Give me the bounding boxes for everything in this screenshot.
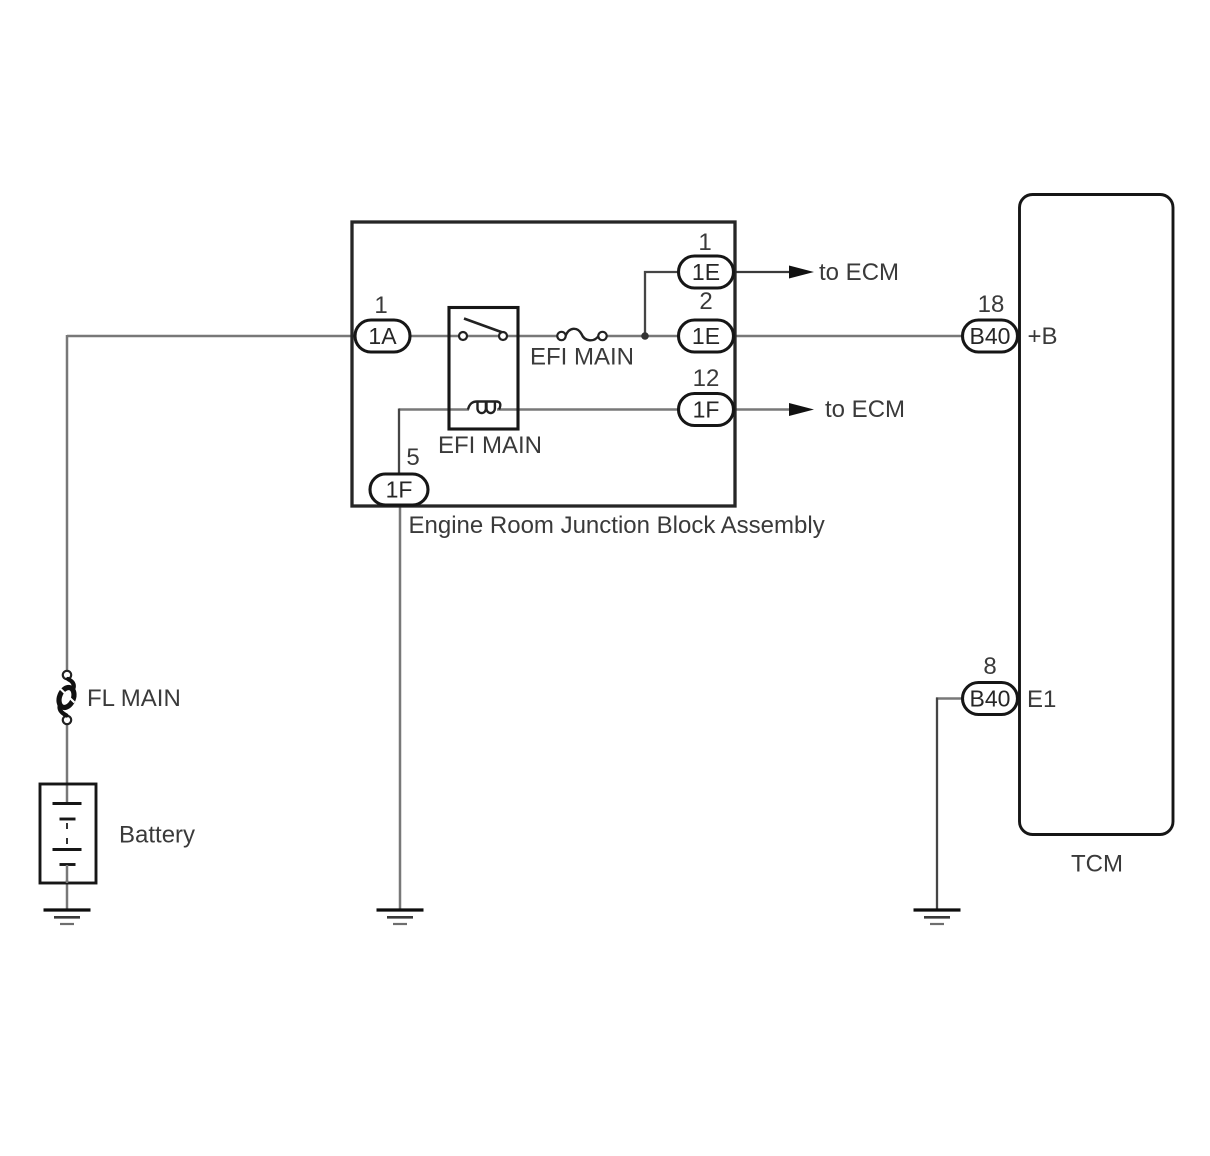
- relay contact right: [499, 332, 507, 340]
- fusible link FL MAIN: [63, 671, 71, 679]
- svg-text:1: 1: [374, 292, 387, 319]
- arrow to ECM (bottom): [789, 403, 814, 416]
- pin 1F no.5: [370, 474, 428, 505]
- wire left vertical down to FL MAIN: [66, 335, 69, 672]
- svg-text:+B: +B: [1028, 323, 1058, 350]
- wire battery feed horizontal top-left: [67, 335, 358, 338]
- svg-text:Engine Room Junction Block Ass: Engine Room Junction Block Assembly: [409, 512, 825, 539]
- pin 1E no.2: [679, 320, 734, 352]
- battery internal top lead: [66, 786, 69, 802]
- battery plate short lower: [60, 863, 76, 866]
- relay contact left: [459, 332, 467, 340]
- TCM box: [1020, 195, 1174, 835]
- svg-text:1A: 1A: [368, 323, 397, 349]
- pin 1A: [355, 320, 410, 352]
- svg-text:1F: 1F: [386, 477, 413, 503]
- svg-text:5: 5: [406, 444, 419, 471]
- svg-text:B40: B40: [970, 686, 1011, 712]
- svg-text:8: 8: [983, 653, 996, 680]
- svg-text:EFI MAIN: EFI MAIN: [438, 432, 542, 459]
- svg-text:to ECM: to ECM: [819, 259, 899, 286]
- svg-text:1E: 1E: [692, 259, 720, 285]
- svg-text:1: 1: [698, 229, 711, 256]
- Engine Room Junction Block Assembly box: [352, 222, 735, 506]
- svg-text:12: 12: [693, 365, 720, 392]
- wire 1E pin 1 to ECM arrow: [731, 271, 790, 273]
- pin 1F no.12: [679, 394, 734, 426]
- arrow to ECM (top): [789, 266, 814, 279]
- wire 1F pin 12 to ECM arrow: [731, 408, 790, 411]
- battery plate short upper: [60, 818, 76, 821]
- svg-text:EFI MAIN: EFI MAIN: [530, 344, 634, 371]
- node junction dot: [641, 332, 649, 340]
- relay EFI MAIN box: [449, 308, 518, 430]
- wire coil row right to 1F pin 12: [497, 408, 682, 411]
- svg-text:FL MAIN: FL MAIN: [87, 685, 181, 712]
- svg-text:1F: 1F: [693, 397, 720, 423]
- wire fuse to 1E pin 2: [598, 335, 682, 338]
- pin 1E no.1: [679, 256, 734, 288]
- wire coil row left: [399, 408, 469, 411]
- wire 1E pin 2 to B40 pin 18: [731, 335, 964, 338]
- relay coil: [468, 402, 500, 414]
- battery plate long upper: [53, 802, 82, 805]
- ground (TCM): [914, 910, 961, 924]
- svg-text:B40: B40: [970, 323, 1011, 349]
- battery: [40, 784, 96, 883]
- svg-text:18: 18: [978, 291, 1005, 318]
- relay switch blade: [464, 319, 504, 334]
- ground (junction block): [377, 910, 424, 924]
- wire battery to ground: [66, 880, 69, 909]
- battery internal bottom lead: [66, 865, 69, 883]
- wire FL MAIN to battery: [66, 723, 69, 786]
- fuse EFI MAIN: [566, 329, 599, 341]
- wire 1F pin 5 down to middle ground: [399, 505, 402, 909]
- wire B40 pin 8 horizontal: [936, 697, 964, 700]
- battery dashed middle: [66, 823, 68, 847]
- svg-text:Battery: Battery: [119, 822, 195, 849]
- pin B40 no.8: [963, 683, 1018, 715]
- ground (battery): [44, 910, 91, 924]
- svg-text:E1: E1: [1027, 686, 1056, 713]
- svg-text:1E: 1E: [692, 323, 720, 349]
- wire B40 pin 8 down to ground: [936, 698, 938, 910]
- wire coil corner down to 1F pin 5: [398, 409, 400, 476]
- wire 1A to relay contact row: [408, 335, 566, 338]
- svg-text:2: 2: [699, 288, 712, 315]
- pin B40 no.18: [963, 320, 1018, 352]
- wire branch node to 1E pin 1: [645, 272, 682, 335]
- svg-text:to ECM: to ECM: [825, 396, 905, 423]
- battery plate long lower: [53, 848, 82, 851]
- svg-text:TCM: TCM: [1071, 851, 1123, 878]
